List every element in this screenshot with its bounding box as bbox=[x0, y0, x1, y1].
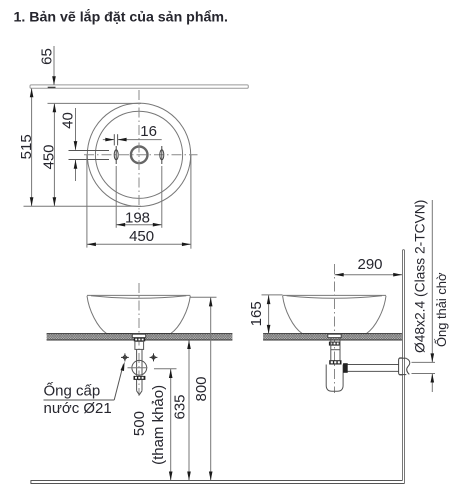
dim 290 bbox=[335, 256, 403, 277]
coupling band bbox=[329, 360, 341, 364]
dim 198 bbox=[116, 166, 162, 228]
svg-text:198: 198 bbox=[125, 209, 150, 226]
dim 500 bbox=[131, 369, 177, 481]
waste arm bbox=[343, 365, 399, 372]
centerline horizontal (top view) bbox=[84, 154, 198, 156]
drain flange right bbox=[328, 334, 341, 337]
lower nut bbox=[134, 376, 146, 380]
svg-text:800: 800 bbox=[193, 376, 210, 401]
centerline left view bbox=[138, 283, 140, 396]
dim 65 bbox=[39, 46, 56, 85]
tail pipe right bbox=[331, 338, 340, 361]
svg-text:16: 16 bbox=[140, 123, 157, 140]
counter (left view, hatched) bbox=[47, 334, 233, 340]
svg-text:635: 635 bbox=[172, 394, 189, 419]
ext line bottom (circle bottom) bbox=[24, 205, 142, 207]
bowl outline right view bbox=[283, 295, 386, 333]
svg-text:500: 500 bbox=[131, 411, 148, 436]
svg-text:Ø48x2.4 (Class 2-TCVN): Ø48x2.4 (Class 2-TCVN) bbox=[413, 200, 428, 353]
svg-text:165: 165 bbox=[248, 301, 265, 326]
ext line top (circle top) bbox=[48, 102, 142, 104]
svg-text:Ống thải chờ: Ống thải chờ bbox=[434, 272, 449, 347]
bowl outline bbox=[87, 295, 190, 333]
centerline right view bbox=[334, 264, 336, 393]
supply valve circle bbox=[132, 360, 147, 375]
svg-text:290: 290 bbox=[357, 256, 382, 273]
counter edge bar (top view) bbox=[30, 85, 248, 88]
dim 450 vertical bbox=[41, 103, 58, 206]
mounting diamond left bbox=[121, 353, 129, 361]
faucet slot right bbox=[160, 146, 164, 164]
floor bbox=[31, 481, 405, 484]
dim 40 bbox=[60, 108, 78, 181]
trap cup bbox=[326, 365, 343, 392]
dark joint segment on bar bbox=[48, 86, 56, 88]
label Ong cap nuoc bbox=[44, 362, 125, 417]
inner circle bbox=[95, 111, 182, 198]
centerline vertical (top view) bbox=[138, 90, 140, 212]
wall double line bbox=[403, 250, 405, 484]
drain ring bbox=[131, 147, 148, 164]
wall hub flange bbox=[399, 358, 410, 375]
svg-text:1. Bản vẽ lắp đặt của sản phẩm: 1. Bản vẽ lắp đặt của sản phẩm. bbox=[14, 8, 228, 26]
faucet tube section lines bbox=[69, 150, 110, 152]
locknut bbox=[134, 338, 145, 342]
svg-text:nước Ø21: nước Ø21 bbox=[44, 400, 112, 417]
svg-text:65: 65 bbox=[39, 48, 56, 65]
dim 515 bbox=[18, 88, 35, 206]
svg-text:515: 515 bbox=[18, 134, 35, 159]
lower pipe + taper bbox=[137, 380, 142, 395]
dim 165 bbox=[248, 295, 283, 334]
svg-text:450: 450 bbox=[41, 144, 58, 169]
dim 450 horizontal bbox=[87, 155, 191, 249]
svg-text:40: 40 bbox=[60, 112, 77, 129]
svg-text:450: 450 bbox=[129, 228, 154, 245]
dim Ø48 bbox=[412, 200, 436, 392]
dim 16 bbox=[103, 123, 162, 145]
drain flange bbox=[132, 334, 145, 337]
counter (right view, hatched) bbox=[263, 334, 402, 340]
mounting diamond right bbox=[150, 353, 158, 361]
faucet slot left bbox=[114, 146, 118, 164]
coupling tube bbox=[135, 341, 144, 375]
svg-text:(tham khảo): (tham khảo) bbox=[150, 385, 167, 465]
svg-text:Ống cấp: Ống cấp bbox=[44, 382, 101, 400]
arm coupling nut bbox=[343, 363, 348, 373]
locknut right bbox=[329, 342, 340, 346]
dim 800 bbox=[191, 297, 217, 480]
outer circle (basin rim top view) bbox=[87, 103, 190, 206]
dim 635 bbox=[172, 340, 191, 481]
